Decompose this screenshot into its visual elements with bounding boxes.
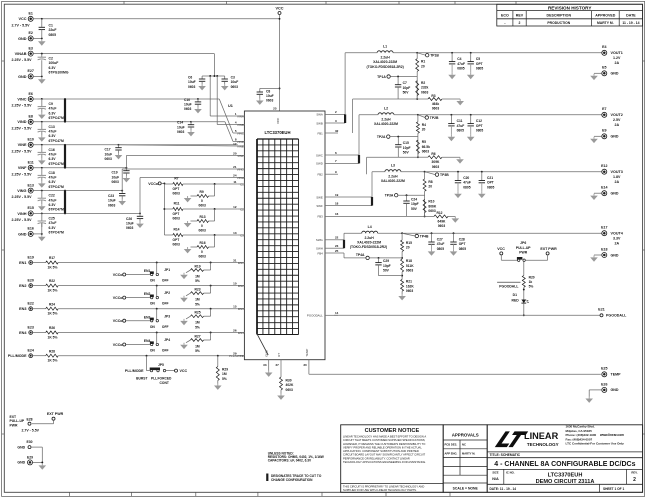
svg-text:R20: R20	[529, 275, 535, 279]
svg-text:13: 13	[233, 231, 237, 235]
svg-text:D1: D1	[513, 293, 517, 297]
svg-text:6.3V: 6.3V	[49, 226, 57, 230]
svg-text:L1: L1	[383, 44, 387, 48]
svg-text:ON: ON	[150, 325, 156, 329]
svg-text:10uF: 10uF	[177, 125, 185, 129]
svg-text:1M: 1M	[195, 321, 200, 325]
svg-text:27: 27	[275, 363, 279, 367]
svg-text:0603: 0603	[199, 255, 207, 259]
svg-text:www.linear.com: www.linear.com	[599, 433, 624, 437]
svg-text:C6: C6	[188, 76, 192, 80]
svg-text:4 - CHANNEL 8A CONFIGURABLE DC: 4 - CHANNEL 8A CONFIGURABLE DC/DCs	[494, 461, 635, 468]
svg-text:(TOKO-FDSD0518-2R2): (TOKO-FDSD0518-2R2)	[366, 65, 403, 69]
svg-text:CONT: CONT	[160, 381, 169, 385]
svg-text:0805: 0805	[49, 33, 57, 37]
svg-text:SWH: SWH	[316, 247, 323, 251]
svg-text:R17: R17	[49, 256, 55, 260]
svg-text:VCC: VCC	[180, 369, 188, 373]
svg-text:C27: C27	[437, 238, 443, 242]
svg-text:SWE: SWE	[316, 195, 323, 199]
svg-text:6.3V: 6.3V	[49, 157, 57, 161]
svg-text:GND: GND	[611, 388, 619, 392]
svg-text:11: 11	[233, 180, 237, 184]
svg-text:VINAB: VINAB	[15, 52, 27, 56]
svg-text:C3: C3	[231, 76, 235, 80]
svg-text:C20: C20	[463, 176, 469, 180]
svg-text:R4: R4	[422, 123, 426, 127]
svg-text:C3: C3	[240, 233, 244, 237]
svg-text:464k: 464k	[432, 102, 440, 106]
svg-text:0603: 0603	[184, 107, 192, 111]
svg-text:OPT: OPT	[487, 181, 494, 185]
svg-text:50V: 50V	[383, 269, 390, 273]
svg-text:XAL4020-222M: XAL4020-222M	[374, 122, 398, 126]
svg-text:JP6: JP6	[520, 241, 526, 245]
svg-text:VCC: VCC	[276, 117, 280, 124]
svg-text:0805: 0805	[487, 185, 495, 189]
svg-text:ON: ON	[150, 349, 156, 353]
svg-text:0603: 0603	[406, 289, 414, 293]
svg-text:5%: 5%	[195, 325, 200, 329]
svg-text:0603: 0603	[177, 130, 185, 134]
svg-text:HOWEVER, IT REMAINS THE CUSTOM: HOWEVER, IT REMAINS THE CUSTOMER'S RESPO…	[343, 442, 425, 446]
svg-text:30: 30	[303, 363, 307, 367]
svg-text:PGOODALL: PGOODALL	[499, 284, 518, 288]
svg-text:10pF: 10pF	[403, 146, 411, 150]
svg-text:ON: ON	[150, 279, 156, 283]
svg-text:10pF: 10pF	[383, 264, 391, 268]
svg-text:19: 19	[335, 193, 339, 197]
svg-text:20: 20	[406, 246, 410, 250]
svg-text:EN1: EN1	[238, 261, 244, 265]
svg-text:VCCo: VCCo	[113, 296, 124, 300]
svg-text:402K: 402K	[286, 383, 295, 387]
svg-text:1K 5%: 1K 5%	[48, 265, 58, 269]
svg-text:6.3V: 6.3V	[49, 66, 57, 70]
svg-text:1.2V: 1.2V	[613, 56, 621, 60]
svg-text:23: 23	[335, 244, 339, 248]
svg-text:E13: E13	[27, 183, 33, 187]
svg-text:PLL/MODE: PLL/MODE	[8, 354, 27, 358]
svg-text:APPROVALS: APPROVALS	[452, 433, 479, 438]
svg-text:TP2A: TP2A	[377, 135, 386, 139]
svg-text:E28: E28	[26, 418, 32, 422]
svg-text:PLL/MODE: PLL/MODE	[125, 369, 144, 373]
svg-text:3.3V: 3.3V	[613, 237, 621, 241]
svg-text:OPT: OPT	[173, 212, 180, 216]
svg-text:-: -	[504, 21, 505, 25]
svg-text:OPT: OPT	[173, 187, 180, 191]
svg-text:R23: R23	[195, 288, 201, 292]
svg-text:TP2B: TP2B	[430, 116, 439, 120]
svg-text:5%: 5%	[222, 377, 227, 381]
svg-text:0: 0	[201, 199, 203, 203]
svg-text:C15: C15	[403, 141, 409, 145]
svg-text:14: 14	[335, 311, 339, 315]
svg-text:15: 15	[233, 305, 237, 309]
svg-text:VING: VING	[237, 167, 245, 171]
svg-text:10uF: 10uF	[188, 80, 196, 84]
svg-text:R30: R30	[286, 379, 292, 383]
svg-text:10: 10	[233, 281, 237, 285]
svg-text:1M: 1M	[195, 345, 200, 349]
svg-text:EN4: EN4	[238, 331, 244, 335]
svg-text:VINC: VINC	[17, 97, 26, 101]
svg-text:1K 5%: 1K 5%	[48, 335, 58, 339]
svg-text:E22: E22	[27, 302, 33, 306]
svg-text:LINEAR TECHNOLOGY HAS MADE A B: LINEAR TECHNOLOGY HAS MADE A BEST EFFORT…	[343, 435, 426, 439]
svg-text:E29: E29	[27, 455, 33, 459]
svg-text:E24: E24	[27, 349, 33, 353]
svg-text:C18: C18	[49, 171, 55, 175]
svg-text:C9: C9	[49, 102, 53, 106]
svg-text:GND: GND	[611, 253, 619, 257]
svg-text:R25: R25	[195, 311, 201, 315]
svg-text:SUPPLIED FOR USE WITH LINEAR T: SUPPLIED FOR USE WITH LINEAR TECHNOLOGY …	[343, 488, 417, 492]
svg-text:2.7V - 5.5V: 2.7V - 5.5V	[22, 429, 40, 433]
svg-text:TP3B: TP3B	[440, 173, 449, 177]
svg-text:RT: RT	[277, 353, 281, 357]
svg-text:0603: 0603	[406, 269, 414, 273]
svg-text:309K: 309K	[432, 160, 441, 164]
svg-text:47uF: 47uF	[463, 181, 471, 185]
svg-text:E5: E5	[602, 66, 606, 70]
svg-text:MARTY M.: MARTY M.	[597, 21, 614, 25]
svg-text:REV.: REV.	[631, 470, 637, 474]
svg-text:E2: E2	[28, 31, 32, 35]
svg-text:EN1: EN1	[19, 261, 26, 265]
svg-text:47uF: 47uF	[49, 107, 57, 111]
svg-text:C24: C24	[411, 198, 417, 202]
svg-text:MARTY M.: MARTY M.	[462, 451, 475, 455]
svg-text:0603: 0603	[199, 204, 207, 208]
svg-text:R21: R21	[406, 280, 412, 284]
svg-text:R15: R15	[406, 241, 412, 245]
svg-text:20: 20	[422, 128, 426, 132]
svg-text:2.7V - 5.5V: 2.7V - 5.5V	[12, 23, 31, 27]
svg-text:EN4: EN4	[144, 339, 151, 343]
svg-text:VINF: VINF	[237, 154, 244, 158]
svg-text:PWR: PWR	[519, 250, 527, 254]
svg-text:EN1: EN1	[144, 269, 151, 273]
svg-text:VOUT3: VOUT3	[611, 170, 623, 174]
svg-text:2A: 2A	[615, 180, 620, 184]
svg-text:50V: 50V	[411, 207, 418, 211]
svg-text:L3: L3	[391, 163, 395, 167]
svg-text:E26: E26	[601, 382, 607, 386]
svg-text:E30: E30	[26, 440, 32, 444]
svg-text:GND: GND	[17, 445, 25, 449]
svg-text:0805: 0805	[459, 247, 467, 251]
svg-text:TP3A: TP3A	[385, 194, 394, 198]
svg-text:XAL4020-222M: XAL4020-222M	[373, 60, 397, 64]
svg-text:0603: 0603	[108, 203, 116, 207]
svg-text:0603: 0603	[432, 165, 440, 169]
svg-text:R12: R12	[436, 211, 442, 215]
svg-text:10uF: 10uF	[266, 94, 274, 98]
svg-text:6.3V: 6.3V	[49, 203, 57, 207]
svg-text:OFF: OFF	[162, 325, 169, 329]
svg-text:OPT: OPT	[173, 238, 180, 242]
svg-text:0603: 0603	[199, 229, 207, 233]
svg-text:E9: E9	[602, 129, 606, 133]
svg-text:TP4B: TP4B	[420, 234, 429, 238]
svg-text:VOUT4: VOUT4	[611, 232, 624, 236]
svg-text:EN2: EN2	[238, 284, 244, 288]
svg-text:5%: 5%	[529, 285, 534, 289]
svg-text:E4: E4	[602, 45, 606, 49]
svg-text:VCCo: VCCo	[148, 182, 159, 186]
svg-text:47uF: 47uF	[49, 153, 57, 157]
svg-text:0805: 0805	[476, 129, 484, 133]
svg-text:0: 0	[201, 250, 203, 254]
svg-text:GND: GND	[18, 232, 27, 236]
svg-text:R5: R5	[422, 140, 426, 144]
svg-text:10pF: 10pF	[411, 202, 419, 206]
svg-text:32: 32	[335, 129, 339, 133]
svg-text:DESCRIPTION: DESCRIPTION	[547, 14, 572, 18]
svg-text:E11: E11	[28, 161, 34, 165]
svg-text:2.2uH: 2.2uH	[388, 174, 398, 178]
svg-text:C25: C25	[49, 216, 55, 220]
svg-text:50V: 50V	[403, 151, 410, 155]
svg-text:6.3V: 6.3V	[49, 134, 57, 138]
svg-text:RED: RED	[512, 299, 520, 303]
svg-text:C7: C7	[403, 81, 407, 85]
svg-text:2.2uH: 2.2uH	[381, 117, 391, 121]
svg-text:VOUT2: VOUT2	[611, 113, 623, 117]
svg-text:ECO: ECO	[501, 14, 509, 18]
svg-text:2.25V - 5.5V: 2.25V - 5.5V	[12, 126, 33, 130]
svg-text:DEMO CIRCUIT 2311A: DEMO CIRCUIT 2311A	[536, 479, 595, 485]
svg-text:VIND: VIND	[237, 140, 244, 144]
svg-text:0: 0	[201, 224, 203, 228]
svg-text:R28: R28	[49, 349, 55, 353]
svg-text:JP5: JP5	[158, 363, 164, 367]
svg-text:C14: C14	[177, 121, 183, 125]
svg-text:EN2: EN2	[19, 284, 26, 288]
svg-text:E27: E27	[27, 69, 33, 73]
svg-text:E21: E21	[598, 308, 604, 312]
svg-text:VCCo: VCCo	[113, 319, 124, 323]
svg-text:EN3: EN3	[19, 307, 26, 311]
svg-text:E19: E19	[27, 255, 33, 259]
svg-text:TEMP: TEMP	[611, 373, 622, 377]
svg-text:R18: R18	[406, 259, 412, 263]
svg-text:IC NO.: IC NO.	[506, 470, 515, 474]
svg-text:R6: R6	[431, 152, 435, 156]
svg-text:FB2: FB2	[317, 173, 323, 177]
svg-text:E10: E10	[27, 138, 33, 142]
svg-text:SHEET 1 OF 1: SHEET 1 OF 1	[603, 487, 624, 491]
svg-text:6TPC47M: 6TPC47M	[49, 116, 64, 120]
svg-text:47uF: 47uF	[457, 124, 465, 128]
svg-text:PGOODALL: PGOODALL	[307, 314, 323, 318]
svg-text:OFF: OFF	[162, 279, 169, 283]
svg-text:VINH: VINH	[17, 212, 26, 216]
svg-text:R26: R26	[49, 326, 55, 330]
svg-text:PULL-UP: PULL-UP	[516, 246, 531, 250]
svg-text:5%: 5%	[195, 349, 200, 353]
svg-text:E7: E7	[602, 107, 606, 111]
svg-text:0603: 0603	[231, 85, 239, 89]
svg-text:VCCo: VCCo	[113, 343, 124, 347]
svg-text:6TPC47M: 6TPC47M	[49, 231, 64, 235]
svg-text:LTC3370EUH: LTC3370EUH	[265, 130, 291, 135]
svg-text:TEMP: TEMP	[305, 349, 309, 357]
svg-text:25: 25	[273, 107, 277, 111]
svg-text:R3: R3	[431, 94, 435, 98]
svg-text:6TPG100MG: 6TPG100MG	[49, 71, 69, 75]
svg-text:U1: U1	[228, 104, 233, 108]
svg-text:E6: E6	[28, 92, 32, 96]
svg-text:C2: C2	[49, 57, 53, 61]
svg-text:TP4A: TP4A	[356, 253, 365, 257]
svg-text:VINE: VINE	[18, 143, 27, 147]
svg-text:APPLICATION. COMPONENT SUBSTIT: APPLICATION. COMPONENT SUBSTITUTION AND …	[343, 449, 419, 453]
svg-text:JP3: JP3	[164, 314, 170, 318]
svg-text:N/A: N/A	[492, 477, 499, 481]
svg-text:1k: 1k	[529, 280, 533, 284]
svg-text:1M: 1M	[222, 372, 227, 376]
svg-text:10uF: 10uF	[112, 175, 120, 179]
svg-text:2A: 2A	[615, 61, 620, 65]
svg-text:C23: C23	[108, 194, 114, 198]
svg-text:C19: C19	[112, 171, 118, 175]
svg-text:50V: 50V	[403, 91, 410, 95]
svg-text:XAL4020-222M: XAL4020-222M	[357, 241, 381, 245]
svg-text:VINB: VINB	[237, 123, 244, 127]
svg-text:2.2uH: 2.2uH	[364, 236, 374, 240]
svg-text:C13: C13	[49, 125, 55, 129]
svg-text:R8: R8	[428, 180, 432, 184]
svg-text:GND: GND	[611, 192, 619, 196]
svg-text:2: 2	[633, 477, 636, 483]
svg-text:2.25V - 5.5V: 2.25V - 5.5V	[12, 58, 33, 62]
svg-text:LTC3370EUH: LTC3370EUH	[548, 473, 583, 479]
svg-text:C12: C12	[476, 119, 482, 123]
svg-text:PCB DES.: PCB DES.	[445, 443, 458, 447]
svg-text:6TPC47M: 6TPC47M	[49, 139, 64, 143]
svg-text:C28: C28	[459, 238, 465, 242]
svg-text:5%: 5%	[195, 279, 200, 283]
svg-text:VIND: VIND	[17, 120, 26, 124]
svg-text:CAPACITORS: uF, 0402, 6.3V: CAPACITORS: uF, 0402, 6.3V	[268, 459, 312, 463]
svg-text:511K: 511K	[406, 264, 414, 268]
svg-text:31: 31	[233, 258, 237, 262]
svg-text:C1: C1	[49, 24, 53, 28]
svg-text:20: 20	[421, 64, 425, 68]
svg-text:E1: E1	[28, 12, 32, 16]
svg-text:20: 20	[428, 185, 432, 189]
svg-text:VINC: VINC	[237, 131, 244, 135]
svg-text:GND: GND	[265, 350, 269, 356]
svg-text:6TPC47M: 6TPC47M	[49, 208, 64, 212]
svg-text:1.8V: 1.8V	[613, 175, 621, 179]
svg-text:R24: R24	[49, 302, 55, 306]
svg-text:E15: E15	[27, 206, 33, 210]
svg-text:47uF: 47uF	[49, 198, 57, 202]
svg-text:0805: 0805	[463, 185, 471, 189]
svg-text:0603: 0603	[112, 180, 120, 184]
svg-text:C16: C16	[49, 148, 55, 152]
svg-text:OPT: OPT	[476, 62, 483, 66]
svg-text:33: 33	[263, 363, 267, 367]
svg-text:26: 26	[233, 328, 237, 332]
svg-text:10uF: 10uF	[184, 103, 192, 107]
svg-text:6.3V: 6.3V	[49, 180, 57, 184]
svg-text:2.25V - 5.5V: 2.25V - 5.5V	[12, 172, 33, 176]
svg-text:232k: 232k	[421, 86, 429, 90]
svg-text:CIRCUIT THAT MEETS CUSTOMER-SU: CIRCUIT THAT MEETS CUSTOMER-SUPPLIED SPE…	[343, 438, 426, 442]
svg-text:C26: C26	[126, 217, 132, 221]
svg-text:TP1A: TP1A	[377, 75, 386, 79]
svg-text:R10: R10	[428, 200, 434, 204]
svg-text:47uF: 47uF	[49, 130, 57, 134]
svg-text:C29: C29	[383, 259, 389, 263]
svg-text:E23: E23	[27, 325, 33, 329]
svg-text:C5: C5	[476, 57, 480, 61]
svg-text:6TPC47M: 6TPC47M	[49, 185, 64, 189]
svg-text:R13: R13	[200, 215, 206, 219]
svg-text:2A: 2A	[615, 123, 620, 127]
svg-text:E12: E12	[601, 164, 607, 168]
svg-text:C8: C8	[266, 89, 270, 93]
svg-text:0603: 0603	[173, 217, 181, 221]
svg-text:DATE: 11 - 19 - 14: DATE: 11 - 19 - 14	[490, 487, 517, 491]
svg-text:XAL4020-222M: XAL4020-222M	[381, 179, 405, 183]
svg-text:GND: GND	[18, 37, 27, 41]
svg-text:0603: 0603	[438, 224, 446, 228]
svg-text:CIRCUIT BOARD LAYOUT MAY SIGNI: CIRCUIT BOARD LAYOUT MAY SIGNIFICANTLY A…	[343, 453, 426, 457]
svg-text:2A: 2A	[615, 241, 620, 245]
svg-text:OPT: OPT	[459, 242, 466, 246]
svg-text:SWG: SWG	[316, 238, 324, 242]
svg-text:LINEAR: LINEAR	[524, 431, 559, 441]
svg-text:PWR: PWR	[10, 423, 18, 427]
svg-text:162K: 162K	[406, 284, 415, 288]
svg-text:10uF: 10uF	[231, 80, 239, 84]
svg-text:R11: R11	[174, 201, 180, 205]
svg-text:R19: R19	[195, 265, 201, 269]
svg-text:FORCED: FORCED	[158, 377, 173, 381]
svg-text:VCCo: VCCo	[113, 273, 124, 277]
svg-text:PLL: PLL	[151, 377, 157, 381]
svg-text:25: 25	[335, 249, 339, 253]
svg-text:E14: E14	[601, 186, 607, 190]
svg-text:L2: L2	[384, 106, 388, 110]
svg-text:10pF: 10pF	[403, 86, 411, 90]
svg-text:E25: E25	[601, 367, 607, 371]
svg-text:0603: 0603	[286, 388, 294, 392]
svg-text:R14: R14	[173, 227, 179, 231]
svg-text:FB3: FB3	[317, 215, 323, 219]
svg-text:OFF: OFF	[162, 349, 169, 353]
svg-text:18: 18	[335, 201, 339, 205]
svg-text:R29: R29	[222, 368, 228, 372]
svg-text:2.5V: 2.5V	[613, 118, 621, 122]
svg-text:5%: 5%	[195, 302, 200, 306]
svg-text:VINF: VINF	[18, 166, 27, 170]
svg-text:REVISION HISTORY: REVISION HISTORY	[548, 5, 591, 10]
svg-text:0603: 0603	[105, 157, 113, 161]
svg-text:47uF: 47uF	[437, 242, 445, 246]
svg-text:649K: 649K	[438, 219, 447, 223]
svg-text:R27: R27	[195, 335, 201, 339]
svg-text:0603: 0603	[422, 150, 430, 154]
svg-text:11 - 19 - 14: 11 - 19 - 14	[622, 21, 639, 25]
svg-text:GND: GND	[17, 461, 25, 465]
